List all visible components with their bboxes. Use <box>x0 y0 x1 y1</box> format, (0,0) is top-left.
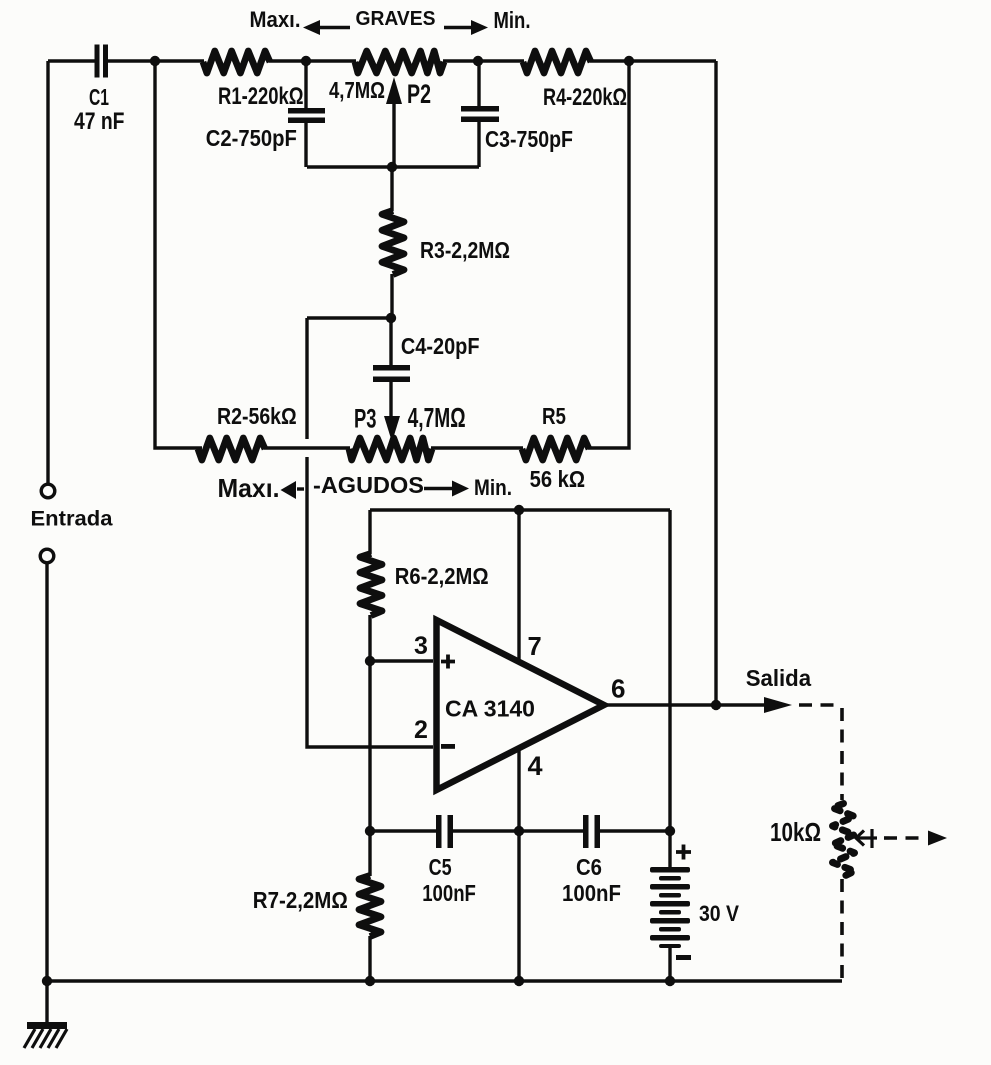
svg-text:4,7MΩ: 4,7MΩ <box>408 402 466 433</box>
svg-text:10kΩ: 10kΩ <box>770 817 821 847</box>
svg-text:Maxı.: Maxı. <box>218 473 280 503</box>
svg-text:C4-20pF: C4-20pF <box>401 333 480 359</box>
svg-text:4,7MΩ: 4,7MΩ <box>329 77 385 103</box>
svg-text:Entrada: Entrada <box>31 507 114 531</box>
svg-text:2: 2 <box>414 716 428 744</box>
svg-text:R7-2,2MΩ: R7-2,2MΩ <box>253 887 348 913</box>
svg-text:Min.: Min. <box>474 475 512 500</box>
svg-text:-AGUDOS: -AGUDOS <box>313 472 424 498</box>
svg-text:Salida: Salida <box>746 665 812 691</box>
svg-text:C3-750pF: C3-750pF <box>485 126 573 152</box>
svg-text:4: 4 <box>528 751 543 781</box>
svg-text:R4-220kΩ: R4-220kΩ <box>543 84 627 111</box>
svg-text:56 kΩ: 56 kΩ <box>530 466 586 492</box>
svg-text:7: 7 <box>528 633 542 661</box>
svg-text:GRAVES: GRAVES <box>356 8 436 30</box>
svg-text:47 nF: 47 nF <box>74 108 125 135</box>
svg-text:100nF: 100nF <box>562 880 621 906</box>
svg-text:R3-2,2MΩ: R3-2,2MΩ <box>420 237 510 263</box>
svg-text:Min.: Min. <box>494 7 531 33</box>
svg-text:100nF: 100nF <box>422 880 476 906</box>
svg-text:CA 3140: CA 3140 <box>445 696 535 722</box>
svg-text:P2: P2 <box>407 79 431 109</box>
svg-text:R6-2,2MΩ: R6-2,2MΩ <box>395 563 489 589</box>
svg-text:C2-750pF: C2-750pF <box>206 125 297 151</box>
svg-text:R5: R5 <box>542 403 566 429</box>
svg-text:P3: P3 <box>354 404 377 434</box>
svg-text:C5: C5 <box>429 854 452 880</box>
svg-text:Maxı.: Maxı. <box>250 7 301 32</box>
svg-text:R2-56kΩ: R2-56kΩ <box>217 403 297 429</box>
svg-text:R1-220kΩ: R1-220kΩ <box>218 83 304 110</box>
svg-text:C6: C6 <box>576 854 602 880</box>
svg-text:6: 6 <box>611 674 625 704</box>
svg-text:3: 3 <box>414 632 428 660</box>
svg-text:30 V: 30 V <box>699 901 739 926</box>
svg-text:C1: C1 <box>89 84 109 110</box>
